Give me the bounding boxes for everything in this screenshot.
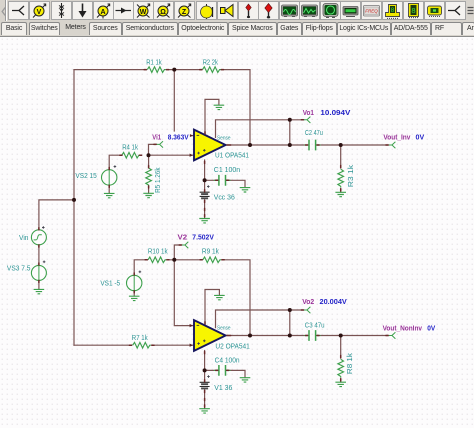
- svg-text:U2 OPA541: U2 OPA541: [215, 341, 249, 350]
- button: jumper: [8, 1, 29, 20]
- tab Spice Macros: [228, 22, 277, 35]
- capacitor C2: [304, 140, 321, 151]
- svg-text:Vout_NonInv: Vout_NonInv: [383, 323, 423, 332]
- button: ohmmeter: [153, 1, 174, 20]
- op-amp input pin arrows: [190, 134, 193, 347]
- ground (VS2): [104, 193, 115, 197]
- ground (U1 case gnd): [214, 105, 225, 109]
- tab Optoelectronic: [178, 22, 228, 35]
- wire: VS2 bottom to ground: [108, 185, 110, 193]
- svg-text:V1 36: V1 36: [214, 383, 232, 392]
- svg-text:Vout_Inv: Vout_Inv: [383, 133, 411, 142]
- wire: Vi1 pin stub: [149, 144, 157, 155]
- svg-text:W: W: [140, 9, 147, 16]
- node: sense tie top: [288, 118, 292, 122]
- svg-text:Z: Z: [182, 9, 187, 16]
- button: loudspeaker: [217, 1, 238, 20]
- node: C3/R8/Vout_NonInv: [339, 334, 343, 338]
- node: R4/R5/Vi1: [147, 153, 151, 157]
- wire: U2 V+ pin up to ground stub: [205, 290, 219, 326]
- tab Analog (cut): [462, 22, 474, 35]
- node: sense2 tie top: [288, 308, 292, 312]
- source VS2: [102, 165, 117, 185]
- wire: C1 leads: [205, 180, 245, 187]
- button: large signal indicator: [258, 1, 279, 20]
- ground (V1): [199, 409, 210, 413]
- wire: rail to Vin source top: [39, 200, 74, 230]
- button: oscilloscope: [279, 1, 300, 20]
- svg-text:Vo1: Vo1: [303, 108, 314, 117]
- wire: V2 node down to U2 inverting input: [174, 260, 193, 326]
- svg-text:8: 8: [411, 8, 416, 16]
- wire: feedback node down to U1 inverting input: [174, 70, 193, 136]
- wire: sense tie down to output 2: [289, 310, 291, 336]
- resistor R9: [203, 257, 221, 263]
- svg-text:Vin: Vin: [19, 233, 29, 242]
- wire: VS1 bottom to ground: [133, 291, 135, 297]
- pin flag Vi1: [156, 141, 163, 147]
- wire: R3 leads: [340, 145, 342, 192]
- ground (R8): [335, 382, 346, 386]
- wire: V1 battery to ground: [204, 390, 206, 409]
- wire: U1 V+ pin up to ground stub: [205, 99, 219, 134]
- wire: R4 left lead down to VS2: [109, 155, 122, 170]
- op-amp output pin marks: [226, 144, 231, 146]
- pin flag Vout_NonInv: [389, 332, 396, 338]
- tab Gates: [277, 22, 302, 35]
- button: impedance meter: [174, 1, 195, 20]
- button: small signal indicator: [238, 1, 259, 20]
- svg-text:R1 1k: R1 1k: [146, 57, 162, 66]
- wire: R10 left lead down to VS1: [134, 260, 147, 276]
- svg-text:VS2 15: VS2 15: [75, 171, 96, 180]
- ground (C1): [240, 188, 251, 192]
- wire: R2 right, down to output node: [221, 70, 250, 145]
- toolbar scroll-left chevron: [0, 0, 8, 21]
- svg-text:8.363V: 8.363V: [168, 133, 189, 142]
- resistor R5: [146, 168, 152, 186]
- button: signal analyzer: [299, 1, 320, 20]
- ground (VS1): [129, 296, 140, 300]
- button: down arrow: [72, 1, 93, 20]
- ground (R5): [143, 193, 154, 197]
- wire: C3 right to R8 node: [318, 335, 341, 337]
- button: current arrow: [51, 1, 72, 20]
- node: R9 drop to output: [248, 334, 252, 338]
- wire: Vcc battery to ground: [204, 200, 206, 218]
- svg-text:R2 2k: R2 2k: [203, 57, 218, 66]
- wire: rail bottom to R7 to U2 noninverting input: [74, 344, 193, 346]
- node: U1 V-/C1/Vcc: [203, 178, 207, 182]
- tab strip: [0, 21, 474, 37]
- resistor R4: [122, 152, 140, 158]
- ground (C4): [240, 378, 251, 382]
- svg-text:R4 1k: R4 1k: [122, 143, 138, 152]
- ground (Vcc): [199, 219, 210, 223]
- capacitor C1: [214, 175, 231, 186]
- resistor R7: [133, 342, 151, 348]
- svg-text:0V: 0V: [427, 323, 435, 332]
- wire: top run from rail to R1: [74, 69, 147, 71]
- svg-text:8: 8: [390, 7, 394, 14]
- svg-text:V: V: [37, 9, 42, 16]
- svg-text:10.094V: 10.094V: [320, 108, 350, 117]
- svg-text:Ω: Ω: [160, 9, 166, 16]
- svg-text:C2 47u: C2 47u: [305, 128, 323, 137]
- svg-text:R7 1k: R7 1k: [132, 333, 148, 342]
- node: R10/R9/V2: [172, 258, 176, 262]
- svg-text:20.004V: 20.004V: [320, 297, 347, 306]
- source VS3: [31, 261, 46, 281]
- svg-text:FREQ: FREQ: [365, 9, 378, 14]
- button: 7-segment display stand: [382, 1, 403, 20]
- node: sense2 tie bottom: [288, 334, 292, 338]
- svg-text:A: A: [100, 9, 105, 16]
- wire: C4 leads: [205, 370, 245, 377]
- toolbar overflow more glyph: [466, 0, 474, 21]
- svg-text:R3 1k: R3 1k: [346, 165, 355, 188]
- toolbar: [0, 0, 474, 21]
- button: inline current meter: [113, 1, 134, 20]
- tab RF: [431, 22, 462, 35]
- button: CRT scope: [320, 1, 341, 20]
- svg-text:R10 1k: R10 1k: [148, 247, 168, 256]
- source VS1: [127, 271, 142, 291]
- wire: VS3 to ground: [38, 280, 40, 289]
- svg-text:Sense: Sense: [217, 326, 231, 332]
- tab Logic ICs-MCUs: [337, 22, 391, 35]
- value 8.363V (with mask): [166, 132, 190, 142]
- ground (Vin stack): [34, 289, 45, 293]
- tab Basic: [1, 22, 27, 35]
- wire: U1 V- pin down to supply node: [204, 160, 206, 192]
- battery V1: [200, 375, 210, 388]
- resistor R1: [147, 67, 165, 73]
- wire: C2 right to R3 node: [318, 144, 341, 146]
- resistor R8: [338, 359, 344, 377]
- toolbar left bevel: [5, 0, 6, 21]
- tab Switches: [29, 22, 61, 35]
- op-amp U2: [194, 320, 226, 351]
- wire: U2 sense pin to Vo2 and output tie: [216, 310, 304, 328]
- svg-text:7.502V: 7.502V: [192, 233, 214, 242]
- svg-text:Vo2: Vo2: [302, 297, 314, 306]
- svg-text:Vi1: Vi1: [152, 132, 161, 141]
- button: wattmeter: [133, 1, 154, 20]
- wire: sense tie down to output: [289, 120, 291, 145]
- svg-text:V2: V2: [178, 233, 188, 242]
- button: frequency meter: [361, 1, 382, 20]
- button: jumper 2: [445, 1, 466, 20]
- wire: U1 sense pin to Vo1 and output tie: [216, 120, 304, 138]
- wire: V2 pin stub: [174, 245, 181, 260]
- wire: R1 to R2 through feedback node: [166, 69, 202, 71]
- capacitor C3: [304, 330, 321, 341]
- resistor R10: [148, 257, 166, 263]
- pin marks (component terminals): [38, 69, 389, 408]
- svg-text:R9 1k: R9 1k: [202, 247, 219, 256]
- resistor R2: [203, 67, 221, 73]
- wire: U2 output to C3: [226, 335, 307, 337]
- wire: Vin to VS3: [38, 245, 40, 266]
- svg-text:R5 1.26k: R5 1.26k: [153, 167, 162, 193]
- tab Flip-flops: [302, 22, 337, 35]
- wire: R9 right, down to output node: [222, 260, 250, 336]
- button: LCD multimeter: [340, 1, 361, 20]
- ground (R3): [335, 192, 346, 196]
- pin flag V2: [182, 242, 189, 248]
- tab Semiconductors: [122, 22, 178, 35]
- button: optocoupler display: [424, 1, 445, 20]
- tab AD/DA-555: [391, 22, 431, 35]
- resistor R3: [338, 169, 344, 187]
- button: lamp indicator: [196, 1, 217, 20]
- pin flag Vout_Inv: [389, 142, 396, 148]
- svg-text:0V: 0V: [416, 133, 425, 142]
- wire: noninverting input from R4/R5 node: [149, 154, 194, 156]
- svg-text:Sense: Sense: [217, 135, 231, 141]
- node: Vin to rail: [72, 198, 76, 202]
- tab Sources: [89, 22, 122, 35]
- wire: U1 output to C2: [226, 144, 307, 146]
- source VG Vin: [31, 226, 46, 245]
- wire: output node 2 to Vout_NonInv pin: [341, 335, 389, 337]
- wire: left vertical rail: [73, 70, 75, 346]
- node: U2 V-/C4/V1: [203, 368, 207, 372]
- tab Meters (active): [61, 22, 90, 35]
- button: voltage pin meter: [29, 1, 50, 20]
- pin flag Vo2: [304, 307, 311, 313]
- wire: R8 leads: [340, 336, 342, 383]
- button: ammeter: [93, 1, 114, 20]
- svg-text:C1 100n: C1 100n: [214, 165, 240, 174]
- svg-text:U1 OPA541: U1 OPA541: [215, 151, 249, 160]
- wire: R10 to R9 through V2 node: [167, 259, 202, 261]
- pin flag Vo1: [304, 117, 311, 123]
- svg-text:Vcc 36: Vcc 36: [214, 192, 235, 201]
- ground (U2 case gnd): [214, 295, 225, 299]
- node: R2 drop to output: [248, 143, 252, 147]
- node: R1/R2/feedback: [172, 68, 176, 72]
- svg-text:VS3 7.5: VS3 7.5: [7, 264, 31, 273]
- node: sense tie bottom: [288, 143, 292, 147]
- battery Vcc: [200, 185, 210, 198]
- svg-text:C3 47u: C3 47u: [305, 321, 325, 330]
- wire: R5 leads: [148, 155, 150, 193]
- svg-text:VS1 -5: VS1 -5: [100, 278, 120, 287]
- wire: output node to Vout_Inv pin: [341, 144, 389, 146]
- svg-text:R8 1k: R8 1k: [345, 353, 354, 374]
- capacitor C4: [214, 365, 231, 376]
- svg-text:C4 100n: C4 100n: [215, 356, 240, 365]
- button: 7-segment display: [403, 1, 424, 20]
- wire: U2 V- pin down to supply node: [204, 351, 206, 383]
- op-amp U1: [194, 130, 226, 161]
- node: C2/R3/Vout_Inv: [339, 143, 343, 147]
